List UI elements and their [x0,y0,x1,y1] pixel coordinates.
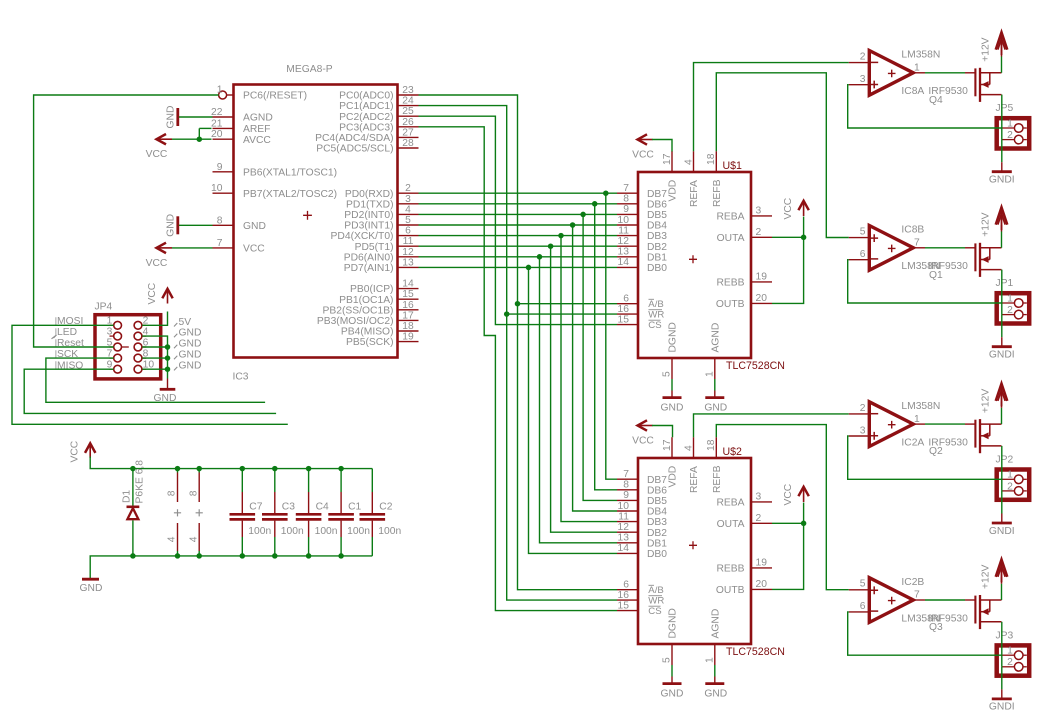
JP4 pin circles and numbers [107,316,155,374]
IC8A minus mark [870,61,878,63]
vcc symbol at AVCC pin 20 [146,134,212,160]
vcc symbol at U$1 OUTA [783,197,809,219]
svg-text:2: 2 [756,513,762,524]
svg-text:PD5(T1): PD5(T1) [355,242,394,253]
svg-text:JP3: JP3 [996,630,1014,641]
svg-text:16: 16 [402,300,414,311]
wire feedback IC2B to JP3 [848,612,1002,655]
svg-text:Q4: Q4 [929,95,943,106]
IC2A minus mark [870,413,878,415]
svg-text:21: 21 [211,118,223,129]
svg-text:2: 2 [756,227,762,238]
svg-text:LM358N: LM358N [901,50,940,61]
svg-text:18: 18 [402,321,414,332]
label MEGA8-P value [286,64,332,75]
svg-text:DB3: DB3 [647,517,667,528]
wire AREF to AVCC [199,128,211,139]
svg-text:Q2: Q2 [929,446,943,457]
svg-text:PD3(INT1): PD3(INT1) [344,221,393,232]
JP3 pin 1 circle [1014,651,1023,660]
svg-text:22: 22 [211,107,223,118]
svg-text:2: 2 [860,52,866,63]
wire JP1 to GNDI [1001,315,1003,347]
junction DB3 [558,233,564,239]
wire JP2 to GNDI [1001,491,1003,523]
wire U$2 REFA to IC2A [694,414,849,437]
transistor Q4 IRF9530 [975,68,1001,102]
U$2 control pin stubs [617,580,638,612]
svg-text:REBA: REBA [716,498,744,509]
junction DB6 [592,201,598,207]
svg-text:3: 3 [860,74,866,85]
svg-text:VDD: VDD [668,180,679,202]
svg-text:VCC: VCC [243,244,265,255]
label P6KE 6,8 value [135,460,146,504]
junction C7 top [240,466,246,472]
wire Q4 source to JP5 [1001,95,1003,140]
svg-text:20: 20 [756,579,768,590]
label IC8A top [901,50,940,61]
junction U$1 OUTA [801,235,807,241]
origin cross U$2 [689,541,697,549]
svg-text:PC2(ADC2): PC2(ADC2) [339,112,393,123]
junction power gate 2 top [196,466,202,472]
U$2 DB pin names [647,475,667,560]
svg-text:GND: GND [661,689,684,700]
svg-text:15: 15 [618,600,630,611]
svg-text:OUTB: OUTB [716,299,745,310]
svg-text:4: 4 [683,445,694,451]
svg-text:8: 8 [217,215,223,226]
svg-text:PD1(TXD): PD1(TXD) [346,199,393,210]
svg-text:2: 2 [1007,305,1013,316]
svg-text:1: 1 [1007,470,1013,481]
svg-text:25: 25 [402,106,414,117]
origin cross IC2B [888,597,896,605]
ground symbol at rail [80,579,103,594]
+12V supply symbol Q4 [980,32,1007,62]
svg-text:14: 14 [618,257,630,268]
svg-text:D1: D1 [122,490,133,503]
U$1 top pin stubs 17 4 18 [662,151,717,172]
svg-text:IC2B: IC2B [901,577,924,588]
junction power gate 2 bottom [196,553,202,559]
label IC2A bottom [901,437,924,448]
svg-text:9: 9 [623,490,629,501]
junction JP4 gnd 1 [165,344,171,350]
LED label arrow tick [52,335,57,339]
svg-text:11: 11 [403,236,414,247]
svg-text:2: 2 [1007,657,1013,668]
junction C4 bottom [306,553,312,559]
junction DB0 [526,265,532,271]
svg-text:8: 8 [623,194,629,205]
U$2 control pin names A/B WR CS [648,585,664,617]
svg-text:GND: GND [179,328,202,339]
wire U$1 OUTA/OUTB tie [772,217,804,304]
transistor Q2 IRF9530 [975,419,1001,453]
wire JP4 gnd pins [142,336,167,378]
op-amp IC2B LM358N triangle [869,578,913,623]
svg-text:DB1: DB1 [647,252,667,263]
label IRF9530 Q1 [928,261,968,272]
U$1 control pin stubs [617,294,638,326]
label IC2A top [901,401,940,412]
svg-text:DB6: DB6 [647,485,667,496]
wire Q4 drain to +12V [1001,50,1003,73]
svg-text:CS: CS [648,320,661,331]
JP5 pin lines [1002,128,1027,140]
svg-text:DB4: DB4 [647,221,667,232]
JP1 pin numbers [1007,293,1013,316]
label IC8A bottom [901,86,924,97]
svg-text:PD7(AIN1): PD7(AIN1) [344,263,394,274]
svg-text:1: 1 [704,371,715,377]
svg-text:DGND: DGND [668,322,679,352]
wire top rail VCC [90,457,372,469]
svg-text:5V: 5V [179,317,192,328]
op-amp power gate 2 pins 8/4 [188,469,202,556]
svg-text:REFA: REFA [689,466,700,493]
svg-text:3: 3 [860,425,866,436]
label TLC7528CN value U$2 [726,646,785,658]
svg-text:VCC: VCC [632,150,654,161]
IC3 left pins with names and numbers [211,107,337,255]
svg-text:AREF: AREF [243,124,270,135]
svg-text:GND: GND [704,689,727,700]
JP3 pin lines [1002,655,1027,667]
wire PD3 data bus DB4 [419,225,618,511]
svg-text:PB5(SCK): PB5(SCK) [346,337,394,348]
svg-text:100n: 100n [378,526,401,537]
label IC2B top [901,577,924,588]
U$1 control pin names A/B WR CS [648,299,664,331]
transistor Q1 IRF9530 [975,243,1001,277]
junction PC0 A/B [515,301,521,307]
junction DB4 [570,222,576,228]
wire Q1 source to JP1 [1001,270,1003,315]
svg-text:5: 5 [662,657,673,663]
wire U$1 VDD to VCC [652,140,672,152]
junction power gate 1 bottom [175,553,181,559]
svg-text:DB5: DB5 [647,210,667,221]
svg-text:+12V: +12V [980,389,991,413]
vcc symbol at VCC pin 7 [146,243,213,269]
capacitor C3 100n [262,469,304,556]
junction D1 bottom [130,553,136,559]
svg-text:19: 19 [402,332,414,343]
svg-text:9: 9 [623,204,629,215]
U$2 bottom pin names [668,608,722,638]
origin cross IC2A [888,421,896,429]
svg-text:4: 4 [683,159,694,165]
IC8A pin numbers [860,52,920,86]
svg-text:CS: CS [648,606,661,617]
JP2 pin 1 circle [1014,475,1023,484]
wire PD6 data bus DB1 [419,257,618,543]
junction JP4 gnd 2 [165,355,171,361]
svg-text:U$2: U$2 [723,446,743,458]
svg-text:GND: GND [179,361,202,372]
svg-text:10: 10 [618,215,630,226]
wire MISO net [24,369,276,413]
svg-text:2: 2 [1007,481,1013,492]
svg-text:GNDI: GNDI [989,526,1015,537]
svg-text:4: 4 [188,536,199,542]
svg-text:VCC: VCC [146,258,168,269]
svg-text:GND: GND [80,583,103,594]
+12V supply symbol Q2 [980,384,1007,414]
label IC8B top [901,225,924,236]
svg-text:5: 5 [860,227,866,238]
svg-text:6: 6 [860,601,866,612]
svg-text:PC5(ADC5/SCL): PC5(ADC5/SCL) [316,144,393,155]
wire bottom rail GND [90,556,372,578]
svg-text:PB7(XTAL2/TOSC2): PB7(XTAL2/TOSC2) [243,189,337,200]
label IC8B bottom [901,261,940,272]
svg-text:GND: GND [243,221,266,232]
JP3 pin numbers [1007,646,1013,669]
svg-text:6: 6 [623,580,629,591]
wire U$2 OUTA/OUTB tie [772,503,804,590]
net labels MOSI LED Reset SCK MISO [56,316,84,371]
U$2 top pin names [668,465,723,493]
label IRF9530 Q4 [928,86,968,97]
svg-text:PD4(XCK/T0): PD4(XCK/T0) [331,231,394,242]
capacitor C1 100n [328,469,370,556]
+12V supply symbol Q1 [980,207,1007,237]
ground symbol at GND pin 8 [165,214,212,237]
wire IC8A output to Q4 gate [913,72,975,74]
junction C3 top [272,466,278,472]
svg-text:DB1: DB1 [647,538,667,549]
label Q3 name [929,622,943,633]
junction DB2 [548,243,554,249]
IC2A pin numbers [860,403,920,437]
svg-text:GND: GND [704,403,727,414]
svg-text:15: 15 [402,289,414,300]
svg-text:DB3: DB3 [647,231,667,242]
ground symbol below U$1 at x672 [661,379,684,414]
svg-text:1: 1 [914,63,920,74]
svg-text:DB2: DB2 [647,528,667,539]
wire Q1 drain to +12V [1001,225,1003,248]
wire SCK net [46,358,265,402]
JP4 pin 5 extra stub [122,346,129,348]
label IRF9530 Q3 [928,613,968,624]
vcc symbol at U$1 VDD [632,134,654,160]
junction AVCC/AREF [197,136,203,142]
wire Reset net [34,95,219,347]
label JP5 name [996,103,1014,114]
svg-text:100n: 100n [248,526,271,537]
vcc symbol at U$2 VDD [632,420,654,446]
wire PD1 data bus DB6 [419,204,618,490]
svg-text:6: 6 [405,226,411,237]
svg-text:MEGA8-P: MEGA8-P [286,64,332,75]
svg-text:DGND: DGND [668,608,679,638]
wire feedback IC8B to JP1 [848,260,1002,303]
svg-text:PB4(MISO): PB4(MISO) [341,327,394,338]
svg-text:1: 1 [1007,118,1013,129]
svg-text:GND: GND [179,339,202,350]
IC2B minus mark [870,610,878,612]
wire PD4 data bus DB3 [419,236,618,522]
U$2 top pin stubs 17 4 18 [662,437,717,458]
capacitor C4 100n [296,469,338,556]
IC2A input stubs [849,414,870,436]
svg-text:IC3: IC3 [233,372,249,383]
JP2 pin lines [1002,479,1027,491]
svg-text:16: 16 [618,590,630,601]
junction D1 top [130,466,136,472]
IC2B plus mark [870,586,878,594]
svg-text:DB5: DB5 [647,496,667,507]
svg-text:REBA: REBA [716,212,744,223]
IC2A plus mark [870,432,878,440]
svg-text:1: 1 [217,85,223,96]
svg-text:JP5: JP5 [996,103,1014,114]
svg-text:26: 26 [402,117,414,128]
wire Q2 drain to +12V [1001,401,1003,424]
svg-text:JP2: JP2 [996,455,1014,466]
svg-text:DB7: DB7 [647,189,667,200]
label JP3 name [996,630,1014,641]
svg-text:24: 24 [402,96,414,107]
origin cross U$1 [689,255,697,263]
svg-text:7: 7 [217,238,223,249]
vcc symbol above JP4 [147,282,173,304]
JP2 pin numbers [1007,470,1013,493]
IC8B input stubs [849,238,870,260]
IC3 pin 1 PC6(/RESET) with inversion circle [217,85,307,102]
svg-text:GND: GND [154,393,177,404]
svg-text:7: 7 [623,469,629,480]
JP1 pin 1 circle [1014,299,1023,308]
svg-text:DB0: DB0 [647,549,667,560]
svg-text:3: 3 [107,326,113,337]
label TLC7528CN value U$1 [726,360,785,372]
vcc symbol at rail [69,440,95,462]
svg-text:18: 18 [706,153,717,165]
connector JP4 box [95,315,161,379]
svg-text:100n: 100n [347,526,370,537]
svg-text:GND: GND [165,214,176,237]
wire U$2 VDD to VCC [652,426,673,438]
svg-text:IC8A: IC8A [901,86,924,97]
svg-text:GND: GND [661,403,684,414]
svg-text:14: 14 [618,543,630,554]
svg-text:2: 2 [1007,130,1013,141]
svg-text:A/B: A/B [648,299,663,310]
ground symbol GNDI JP2 [989,523,1015,537]
svg-text:AVCC: AVCC [243,135,271,146]
ground symbol below U$1 at x714 [704,379,727,414]
ground symbol at AGND pin 22 [165,106,212,129]
IC2B input stubs [849,590,870,612]
junction power gate 1 top [175,466,181,472]
label Q2 name [929,446,943,457]
junction DB5 [580,212,586,218]
junction C4 top [306,466,312,472]
wire Q3 source to JP3 [1001,622,1003,667]
svg-text:6: 6 [860,249,866,260]
svg-text:JP4: JP4 [95,302,113,313]
op-amp IC2A LM358N triangle [869,402,913,447]
svg-text:12: 12 [402,247,414,258]
svg-text:Q3: Q3 [929,622,943,633]
origin cross IC8B [888,245,896,253]
IC2B pin numbers [860,579,920,613]
U$2 DB pin stubs [617,469,638,554]
svg-text:+12V: +12V [980,37,991,61]
svg-text:REBB: REBB [716,278,744,289]
vcc symbol at U$2 OUTA [783,483,809,505]
svg-text:PB0(ICP): PB0(ICP) [350,284,394,295]
svg-text:TLC7528CN: TLC7528CN [726,646,785,658]
svg-text:27: 27 [402,127,414,138]
svg-text:DB4: DB4 [647,507,667,518]
svg-text:PC0(ADC0): PC0(ADC0) [339,91,393,102]
IC8A plus mark [870,81,878,89]
ground symbol below U$2 at x714 [704,665,727,700]
junction JP4 gnd 3 [165,366,171,372]
svg-text:17: 17 [662,153,673,165]
U$2 right pins REBA OUTA REBB OUTB [716,492,772,596]
svg-text:DB2: DB2 [647,242,667,253]
svg-text:3: 3 [756,492,762,503]
svg-text:WR: WR [648,309,664,320]
svg-text:7: 7 [914,238,920,249]
label JP2 name [996,455,1014,466]
wire D1 top lead [132,469,134,506]
svg-text:REFB: REFB [712,179,723,207]
label Q1 name [929,270,943,281]
svg-text:AGND: AGND [243,113,273,124]
wire JP4 pin2 to VCC [142,312,167,326]
svg-text:13: 13 [402,257,414,268]
wire IC8B output to Q1 gate [913,247,975,249]
svg-text:C7: C7 [249,502,262,513]
JP1 pin 2 circle [1014,310,1023,319]
svg-text:3: 3 [756,206,762,217]
svg-text:100n: 100n [281,526,304,537]
wire D1 bottom lead [132,520,134,556]
U$1 top pin names [668,179,723,207]
svg-text:PB2(SS/OC1B): PB2(SS/OC1B) [323,305,394,316]
svg-text:PB3(MOSI/OC2): PB3(MOSI/OC2) [317,316,394,327]
DAC U$1 TLC7528CN box [638,172,751,358]
svg-text:13: 13 [618,247,630,258]
net labels 5V and GND at JP4 [174,317,201,372]
svg-text:+12V: +12V [980,565,991,589]
svg-text:GNDI: GNDI [989,350,1015,361]
wire U$1 REFB to IC8B [716,73,849,238]
label JP4 name [95,302,113,313]
label Q4 name [929,95,943,106]
wire Q2 source to JP2 [1001,446,1003,491]
svg-text:5: 5 [662,371,673,377]
svg-text:C2: C2 [379,502,392,513]
svg-text:PD0(RXD): PD0(RXD) [345,189,394,200]
svg-text:3: 3 [405,194,411,205]
wire JP3 to GNDI [1001,667,1003,699]
svg-text:PD6(AIN0): PD6(AIN0) [344,252,394,263]
svg-text:PB6(XTAL1/TOSC1): PB6(XTAL1/TOSC1) [243,167,337,178]
svg-text:C1: C1 [348,502,361,513]
svg-text:VCC: VCC [783,483,794,505]
svg-text:PC6(/RESET): PC6(/RESET) [243,91,307,102]
